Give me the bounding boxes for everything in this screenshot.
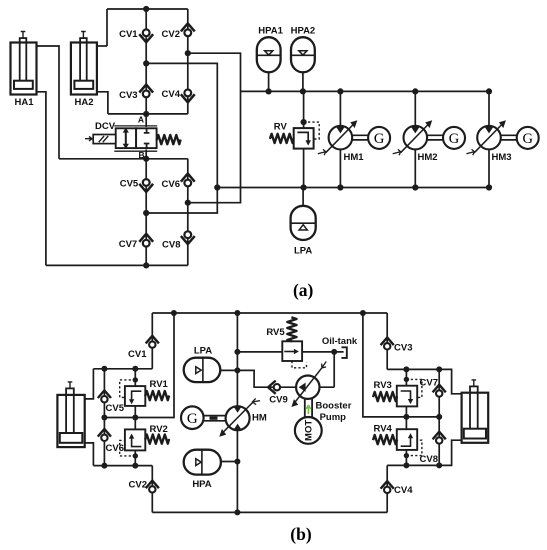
svg-text:CV7: CV7 xyxy=(420,377,438,388)
svg-text:HPA1: HPA1 xyxy=(258,25,283,36)
svg-text:CV1: CV1 xyxy=(119,29,138,40)
svg-text:CV8: CV8 xyxy=(420,454,438,465)
svg-text:CV4: CV4 xyxy=(394,485,413,496)
svg-text:CV1: CV1 xyxy=(128,349,147,360)
svg-text:CV6: CV6 xyxy=(162,179,180,190)
svg-text:RV2: RV2 xyxy=(150,424,168,435)
svg-text:RV5: RV5 xyxy=(266,327,285,338)
svg-text:CV8: CV8 xyxy=(162,240,180,251)
svg-text:HM: HM xyxy=(252,413,267,424)
svg-text:CV4: CV4 xyxy=(162,89,181,100)
svg-text:Booster: Booster xyxy=(316,400,352,411)
svg-text:Pump: Pump xyxy=(320,412,347,423)
svg-text:HM3: HM3 xyxy=(492,152,512,163)
svg-text:HM1: HM1 xyxy=(344,152,365,163)
svg-text:Oil-tank: Oil-tank xyxy=(322,336,358,347)
svg-text:RV1: RV1 xyxy=(150,379,169,390)
svg-text:G: G xyxy=(374,131,385,147)
svg-text:G: G xyxy=(187,411,198,427)
svg-text:CV6: CV6 xyxy=(106,443,124,454)
svg-text:(a): (a) xyxy=(293,280,314,300)
svg-text:CV7: CV7 xyxy=(119,239,137,250)
svg-text:LPA: LPA xyxy=(294,246,312,257)
svg-text:HA2: HA2 xyxy=(74,97,93,108)
svg-text:A: A xyxy=(138,115,144,125)
svg-text:LPA: LPA xyxy=(194,345,212,356)
svg-text:HPA2: HPA2 xyxy=(291,25,316,36)
svg-text:RV3: RV3 xyxy=(374,380,392,391)
svg-text:DCV: DCV xyxy=(95,121,116,132)
svg-text:(b): (b) xyxy=(290,524,312,544)
svg-text:HA1: HA1 xyxy=(14,97,34,108)
svg-text:CV5: CV5 xyxy=(106,403,125,414)
svg-text:G: G xyxy=(449,131,460,147)
svg-text:G: G xyxy=(522,131,533,147)
svg-text:CV3: CV3 xyxy=(119,90,137,101)
svg-text:B: B xyxy=(139,150,145,160)
svg-text:CV2: CV2 xyxy=(129,479,147,490)
svg-text:CV2: CV2 xyxy=(162,29,180,40)
svg-text:HPA: HPA xyxy=(192,479,211,490)
svg-text:RV4: RV4 xyxy=(374,424,393,435)
svg-text:CV5: CV5 xyxy=(120,178,139,189)
svg-text:MOT: MOT xyxy=(304,420,315,441)
svg-text:RV: RV xyxy=(274,121,288,132)
svg-text:CV9: CV9 xyxy=(269,395,287,406)
svg-text:CV3: CV3 xyxy=(394,343,412,354)
svg-text:HM2: HM2 xyxy=(418,152,438,163)
